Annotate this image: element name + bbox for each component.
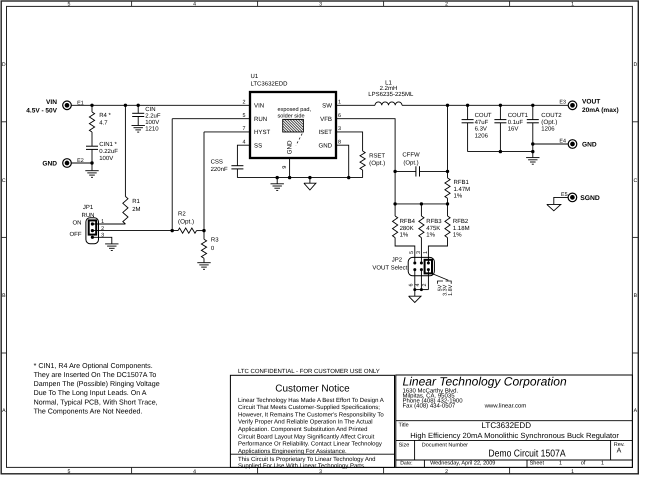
- svg-text:RSET: RSET: [369, 152, 385, 159]
- wire RFB3 to JP2 pin3: [420, 238, 422, 263]
- svg-text:Fax (408) 434-0507: Fax (408) 434-0507: [403, 402, 456, 409]
- wire E5 to ground: [554, 197, 568, 204]
- ground below JP1 pin3: [105, 243, 118, 245]
- svg-text:LTC3632EDD: LTC3632EDD: [251, 80, 289, 87]
- capacitor CSS: [231, 165, 243, 167]
- svg-text:47uF: 47uF: [475, 119, 489, 126]
- svg-text:HYST: HYST: [254, 129, 271, 136]
- capacitor COUT2: [532, 105, 534, 119]
- svg-text:Applications Engineering For A: Applications Engineering For Assistance.: [238, 448, 347, 455]
- svg-text:OFF: OFF: [70, 231, 82, 238]
- svg-text:2: 2: [422, 284, 428, 287]
- node CFFW right: [446, 170, 449, 173]
- svg-text:Supplied For Use With Linear T: Supplied For Use With Linear Technology …: [238, 463, 366, 470]
- customer notice box: [230, 375, 394, 467]
- svg-text:Circuit Board Layout May Signi: Circuit Board Layout May Significantly A…: [238, 433, 375, 440]
- svg-text:1: 1: [571, 469, 574, 475]
- svg-text:VIN: VIN: [46, 99, 57, 106]
- svg-text:JP2: JP2: [392, 257, 403, 264]
- ground below output caps: [532, 152, 534, 158]
- svg-text:280K: 280K: [400, 225, 414, 232]
- svg-text:1.8V: 1.8V: [448, 284, 454, 295]
- wire R2 to R3 node: [197, 230, 205, 232]
- size row dividers: [414, 440, 416, 460]
- svg-text:(Opt.): (Opt.): [178, 219, 194, 226]
- svg-text:Application. Component Substit: Application. Component Substitution And …: [238, 426, 367, 433]
- wire feedback bus: [395, 203, 447, 205]
- wire HYST vertical: [203, 132, 205, 231]
- svg-text:ISET: ISET: [318, 129, 332, 136]
- svg-text:LTC CONFIDENTIAL - FOR CUSTOME: LTC CONFIDENTIAL - FOR CUSTOMER USE ONLY: [238, 368, 380, 375]
- svg-text:GND: GND: [42, 160, 57, 167]
- svg-text:Linear Technology Corporation: Linear Technology Corporation: [403, 375, 568, 389]
- svg-text:SS: SS: [254, 142, 262, 149]
- wire U1 pin3 ISET to RSET: [336, 132, 363, 151]
- svg-text:1: 1: [338, 100, 341, 106]
- wire ground bus: [237, 177, 362, 179]
- JP2 bottom wires: [414, 270, 416, 297]
- svg-text:4: 4: [415, 284, 421, 287]
- svg-text:CSS: CSS: [211, 158, 223, 165]
- svg-text:1: 1: [559, 461, 562, 467]
- svg-text:Document Number: Document Number: [422, 442, 468, 448]
- svg-text:SGND: SGND: [580, 195, 600, 202]
- svg-text:9: 9: [282, 166, 288, 169]
- svg-text:VOUT: VOUT: [582, 99, 600, 106]
- terminal E5 SGND: [568, 193, 577, 202]
- svg-text:D: D: [2, 62, 6, 68]
- svg-text:VIN: VIN: [254, 102, 264, 109]
- JP2 voltage bracket: [438, 281, 444, 284]
- JP2 shunt leader line: [433, 274, 449, 280]
- svg-text:Title: Title: [399, 423, 409, 429]
- svg-text:2: 2: [101, 226, 104, 232]
- svg-text:1: 1: [423, 251, 429, 254]
- svg-text:100V: 100V: [145, 119, 159, 126]
- svg-text:1%: 1%: [400, 232, 409, 239]
- terminal E4 GND: [568, 140, 577, 149]
- frame column ticks bottom: [131, 467, 133, 473]
- svg-text:5: 5: [68, 469, 71, 475]
- svg-text:LTC3632EDD: LTC3632EDD: [482, 421, 532, 430]
- wire RUN vertical: [171, 119, 173, 231]
- svg-text:1.47M: 1.47M: [454, 186, 471, 193]
- svg-text:1.18M: 1.18M: [453, 225, 470, 232]
- wire L1 to E3 VOUT: [402, 104, 568, 106]
- svg-text:RFB4: RFB4: [400, 218, 416, 225]
- wire VIN bus E1 to U1 pin2: [71, 104, 250, 106]
- svg-text:(Opt.): (Opt.): [403, 159, 418, 166]
- node JP2 gnd tie 2: [420, 288, 423, 291]
- svg-text:ON: ON: [73, 220, 82, 227]
- capacitor CIN1: [86, 145, 98, 147]
- svg-text:2M: 2M: [132, 206, 140, 213]
- svg-text:VFB: VFB: [320, 116, 332, 123]
- wire JP1 pin3 to ground: [92, 237, 111, 243]
- wire U1 pin8 GND: [336, 145, 349, 177]
- svg-text:E4: E4: [559, 138, 566, 144]
- node HYST-R3: [202, 229, 205, 232]
- node E2-CIN1-GND: [90, 161, 93, 164]
- node bus earth-gnd: [276, 176, 279, 179]
- wire RUN U1 pin5: [172, 118, 250, 120]
- svg-text:R4 *: R4 *: [99, 112, 111, 119]
- wire JP1 pin1 to R1 bottom: [92, 223, 125, 225]
- svg-text:1: 1: [571, 2, 574, 8]
- svg-text:U1: U1: [251, 73, 259, 80]
- node RUN vertical junction: [171, 229, 174, 232]
- node bus pin9: [288, 176, 291, 179]
- node COUT2 E4: [531, 142, 534, 145]
- svg-text:5: 5: [409, 251, 415, 254]
- wire RFB4 to JP2 pin5: [395, 238, 415, 263]
- svg-text:E3: E3: [559, 100, 566, 106]
- node VIN-R1: [124, 104, 127, 107]
- svg-text:(Opt.): (Opt.): [369, 160, 385, 167]
- svg-text:4: 4: [243, 139, 246, 145]
- inductor L1: [375, 102, 402, 105]
- node cap bus COUT1: [499, 150, 502, 153]
- wire output cap ground bus: [468, 151, 533, 153]
- svg-text:Verify Proper And Reliable Ope: Verify Proper And Reliable Operation In …: [238, 419, 373, 426]
- svg-text:6.3V: 6.3V: [475, 126, 487, 133]
- node VFB-bus: [393, 202, 396, 205]
- svg-text:1%: 1%: [426, 232, 435, 239]
- svg-text:LPS6235-225ML: LPS6235-225ML: [368, 91, 414, 98]
- svg-text:3: 3: [338, 126, 341, 132]
- wire E2 to CIN1 bottom: [71, 162, 92, 164]
- svg-text:1210: 1210: [145, 126, 159, 133]
- svg-text:3: 3: [319, 2, 322, 8]
- svg-text:C: C: [634, 178, 638, 184]
- node SW-COUT2: [531, 104, 534, 107]
- svg-text:5: 5: [243, 113, 246, 119]
- svg-text:3: 3: [416, 251, 422, 254]
- svg-text:16V: 16V: [508, 126, 519, 133]
- date row: [423, 460, 425, 467]
- svg-text:220nF: 220nF: [211, 166, 228, 173]
- svg-text:RFB1: RFB1: [454, 179, 470, 186]
- U1 pin9 stub: [289, 158, 291, 178]
- svg-text:RUN: RUN: [254, 116, 267, 123]
- U1 exposed pad leader dashed: [296, 134, 302, 146]
- resistor R3: [203, 231, 205, 240]
- svg-text:Demo Circuit 1507A: Demo Circuit 1507A: [488, 448, 565, 459]
- svg-text:exposed pad,: exposed pad,: [278, 106, 312, 113]
- svg-text:2: 2: [445, 469, 448, 475]
- svg-text:Size: Size: [399, 442, 410, 448]
- svg-text:COUT: COUT: [475, 112, 492, 119]
- terminal E2 GND: [63, 159, 72, 168]
- svg-text:GND: GND: [318, 142, 332, 149]
- svg-text:4: 4: [193, 469, 196, 475]
- resistor R2: [178, 228, 197, 233]
- svg-text:C: C: [2, 178, 6, 184]
- svg-text:R1: R1: [132, 198, 140, 205]
- svg-text:CIN1 *: CIN1 *: [99, 141, 117, 148]
- svg-text:Linear Technology Has Made A B: Linear Technology Has Made A Best Effort…: [238, 397, 384, 404]
- svg-text:100V: 100V: [99, 155, 113, 162]
- svg-text:5: 5: [68, 2, 71, 8]
- svg-text:solder side: solder side: [278, 113, 305, 120]
- svg-text:1206: 1206: [541, 126, 555, 133]
- wire SW tap vertical: [447, 105, 449, 178]
- svg-text:8: 8: [338, 139, 341, 145]
- svg-text:1%: 1%: [453, 232, 462, 239]
- wire VIN to R1: [124, 105, 126, 196]
- capacitor CIN: [137, 105, 139, 113]
- resistor R1: [123, 196, 128, 224]
- node VIN-CIN: [137, 104, 140, 107]
- svg-text:(Opt.): (Opt.): [541, 119, 557, 126]
- frame row ticks left: [1, 121, 6, 123]
- svg-text:1%: 1%: [454, 192, 463, 199]
- capacitor COUT1: [499, 105, 501, 119]
- svg-text:2: 2: [243, 100, 246, 106]
- svg-text:Customer Notice: Customer Notice: [275, 384, 350, 395]
- svg-text:0.22uF: 0.22uF: [99, 148, 118, 155]
- svg-text:R2: R2: [178, 211, 186, 218]
- resistor RFB4: [394, 204, 396, 216]
- ground earth on bus: [276, 178, 278, 184]
- node SW-COUT1: [499, 104, 502, 107]
- svg-text:Wednesday, April 22, 2009: Wednesday, April 22, 2009: [430, 461, 495, 467]
- svg-text:Normal, Typical PCB, With Shor: Normal, Typical PCB, With Short Trace,: [34, 398, 158, 406]
- svg-text:VOUT Select: VOUT Select: [372, 264, 407, 271]
- svg-text:D: D: [634, 62, 638, 68]
- wire SS to CSS: [237, 145, 250, 166]
- node cap bus COUT2: [531, 150, 534, 153]
- ground triangle JP2: [409, 296, 421, 302]
- svg-text:GND: GND: [582, 141, 597, 148]
- svg-text:www.linear.com: www.linear.com: [484, 402, 527, 409]
- svg-text:4.7: 4.7: [99, 120, 108, 127]
- svg-text:COUT1: COUT1: [508, 112, 529, 119]
- svg-text:475K: 475K: [426, 225, 440, 232]
- svg-text:2: 2: [445, 2, 448, 8]
- svg-text:RFB2: RFB2: [453, 218, 469, 225]
- wire U1 pin1 SW to L1: [336, 104, 375, 106]
- node bus pin8: [347, 176, 350, 179]
- svg-text:CFFW: CFFW: [402, 152, 420, 159]
- ground below CIN: [132, 125, 145, 127]
- ground triangle on bus: [309, 178, 311, 184]
- node bus tri-gnd: [308, 176, 311, 179]
- svg-text:Sheet: Sheet: [530, 461, 545, 467]
- svg-text:Due To The Long Input Leads. O: Due To The Long Input Leads. On A: [34, 389, 147, 397]
- svg-text:However, It Remains The Custom: However, It Remains The Customer's Respo…: [238, 411, 384, 418]
- wire E4 GND: [533, 143, 568, 145]
- ground below R3: [197, 262, 210, 264]
- svg-text:JP1: JP1: [83, 204, 94, 211]
- svg-text:20mA (max): 20mA (max): [582, 107, 619, 114]
- svg-text:A: A: [617, 448, 622, 455]
- terminal E1 VIN: [63, 101, 72, 110]
- title block frame: [396, 375, 633, 467]
- terminal E3 VOUT: [568, 101, 577, 110]
- svg-text:They are Inserted On The DC150: They are Inserted On The DC1507A To: [34, 371, 157, 379]
- svg-text:Circuit That Meets Customer-Su: Circuit That Meets Customer-Supplied Spe…: [238, 404, 380, 411]
- resistor RFB2: [447, 204, 449, 216]
- svg-text:of: of: [581, 461, 586, 467]
- svg-text:0.1uF: 0.1uF: [508, 119, 524, 126]
- node SW-feedback: [446, 104, 449, 107]
- wire VFB U1 pin6: [336, 119, 395, 204]
- resistor RFB3: [420, 204, 422, 216]
- svg-text:1: 1: [601, 461, 604, 467]
- svg-text:R3: R3: [211, 237, 219, 244]
- node SW-COUT: [466, 104, 469, 107]
- svg-text:SW: SW: [322, 102, 332, 109]
- svg-text:CIN: CIN: [145, 106, 155, 113]
- frame row ticks right: [632, 121, 638, 123]
- svg-text:6: 6: [409, 284, 415, 287]
- svg-text:1206: 1206: [475, 133, 489, 140]
- frame column ticks top: [131, 1, 133, 6]
- ground triangle E5: [547, 204, 561, 210]
- svg-text:This Circuit Is Proprietary To: This Circuit Is Proprietary To Linear Te…: [238, 456, 376, 463]
- U1 exposed pad hatch: [283, 119, 304, 132]
- node VIN-R4: [90, 104, 93, 107]
- ground below E2: [91, 163, 93, 170]
- resistor RFB1: [445, 178, 450, 198]
- svg-text:B: B: [2, 293, 6, 299]
- svg-text:A: A: [2, 408, 6, 414]
- svg-text:B: B: [634, 293, 638, 299]
- resistor R4: [91, 105, 93, 112]
- wire HYST U1 pin7: [204, 131, 250, 133]
- svg-text:A: A: [634, 408, 638, 414]
- wire RFB2 to JP2 pin1: [428, 238, 447, 263]
- svg-text:2.2uF: 2.2uF: [145, 112, 161, 119]
- svg-text:6: 6: [338, 113, 341, 119]
- svg-text:Dampen The (Possible) Ringing: Dampen The (Possible) Ringing Voltage: [34, 380, 160, 388]
- svg-text:Performance Or Reliability. Co: Performance Or Reliability. Contact Line…: [238, 441, 382, 448]
- resistor RSET: [360, 151, 365, 170]
- svg-text:* CIN1, R4 Are Optional Compon: * CIN1, R4 Are Optional Components.: [34, 362, 153, 370]
- svg-text:Date:: Date:: [400, 461, 412, 467]
- node JP2 gnd tie 1: [413, 288, 416, 291]
- wire JP1 pin2 run net: [92, 230, 178, 232]
- node fb bus RFB3: [420, 202, 423, 205]
- capacitor COUT: [467, 105, 469, 119]
- svg-text:4: 4: [193, 2, 196, 8]
- svg-text:4.5V - 50V: 4.5V - 50V: [26, 108, 57, 115]
- node fb bus RFB2: [446, 202, 449, 205]
- svg-text:3: 3: [319, 469, 322, 475]
- svg-text:7: 7: [243, 126, 246, 132]
- svg-text:High Efficiency 20mA Monolithi: High Efficiency 20mA Monolithic Synchron…: [410, 431, 619, 440]
- svg-text:RFB3: RFB3: [426, 218, 442, 225]
- capacitor CFFW: [395, 170, 416, 172]
- svg-text:GND: GND: [286, 140, 293, 154]
- svg-text:The Components Are Not Needed: The Components Are Not Needed.: [34, 407, 143, 415]
- node VFB-CFFW: [393, 170, 396, 173]
